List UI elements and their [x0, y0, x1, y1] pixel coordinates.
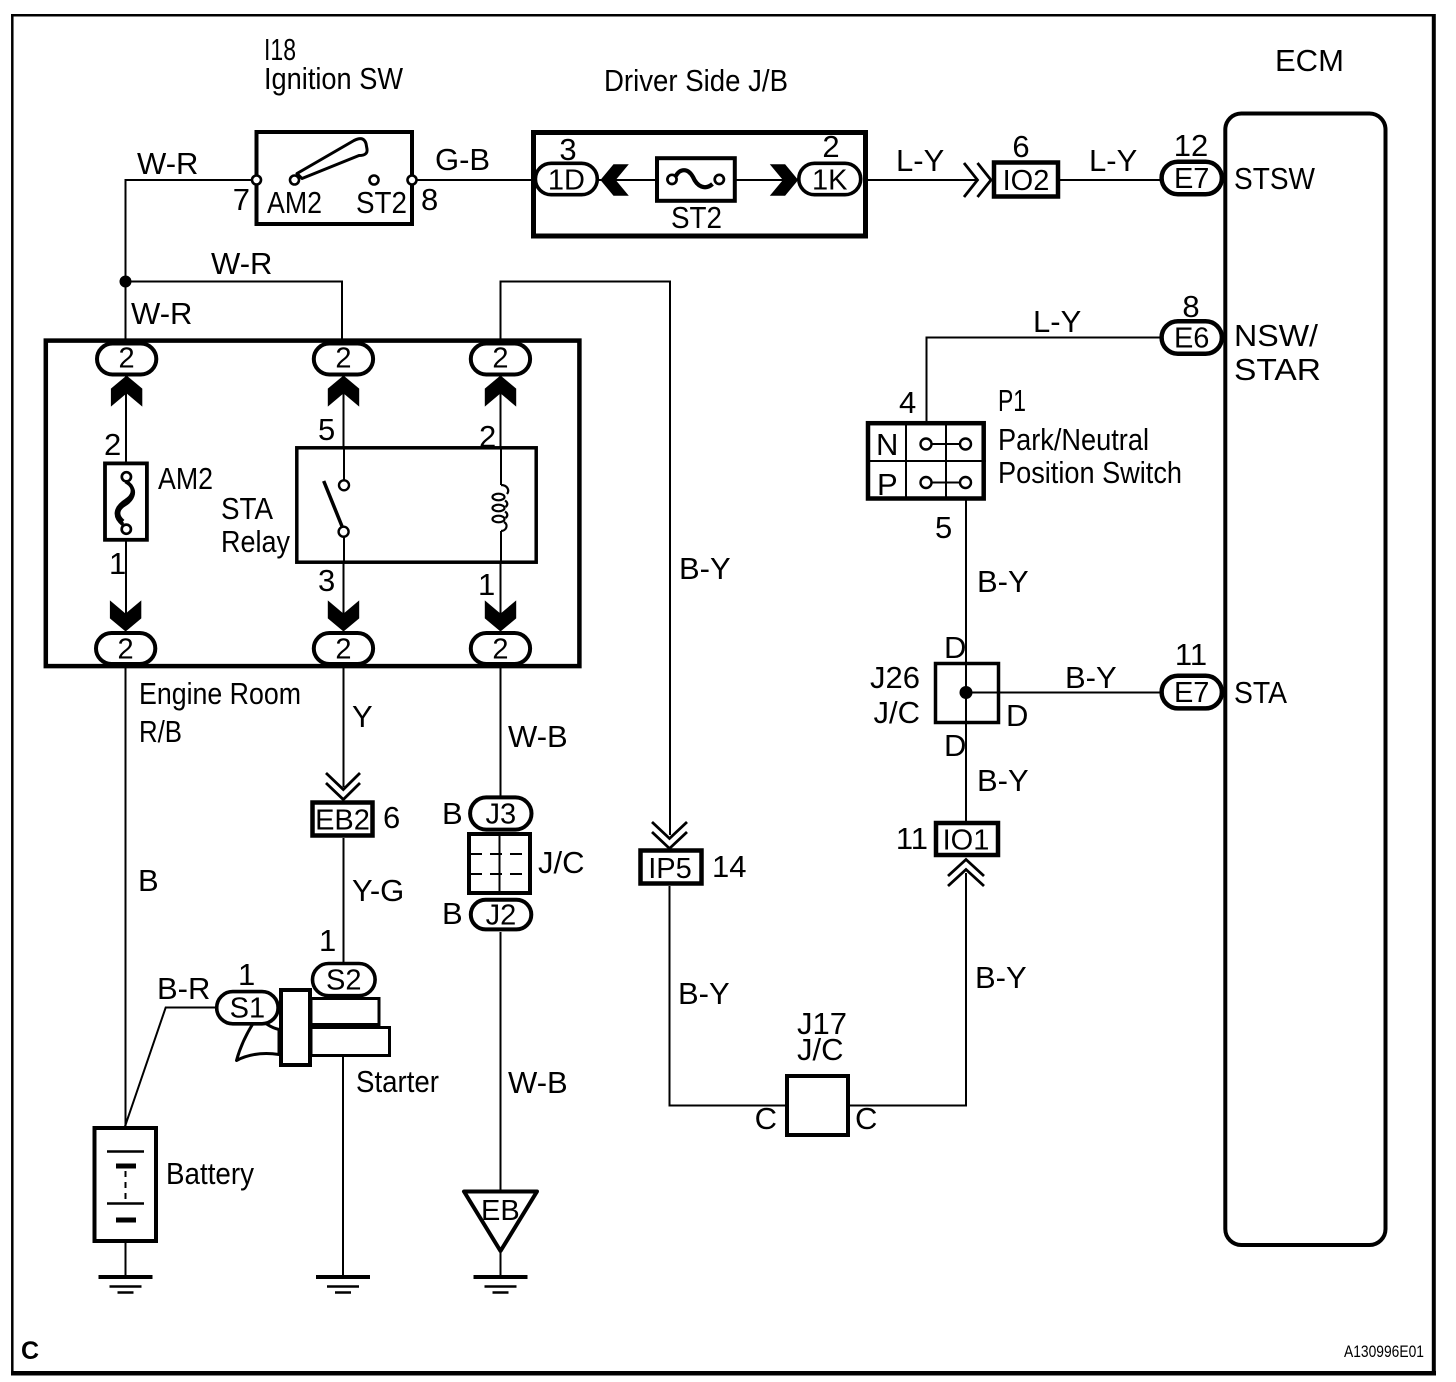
svg-text:P: P [877, 467, 898, 502]
svg-text:3: 3 [559, 132, 576, 167]
svg-text:L-Y: L-Y [1089, 143, 1137, 178]
wire from Engine Room connector to B-Y drop [501, 282, 671, 836]
svg-text:8: 8 [421, 182, 438, 217]
P1 contacts N row [930, 443, 962, 445]
wire inside J/B [566, 179, 830, 181]
ignition switch lever [297, 139, 367, 179]
connector EB2 [313, 803, 373, 836]
connector 2 (bottom 2) [314, 633, 373, 664]
svg-text:B-R: B-R [157, 971, 210, 1006]
svg-text:D: D [1006, 698, 1028, 733]
ignition ST2 contact circle [370, 176, 379, 185]
ground battery [99, 1277, 153, 1293]
svg-text:2: 2 [104, 427, 121, 462]
svg-text:Driver Side J/B: Driver Side J/B [604, 63, 788, 98]
ECM box [1225, 114, 1385, 1246]
svg-text:B-Y: B-Y [679, 551, 731, 586]
svg-text:E6: E6 [1174, 323, 1209, 355]
wire col3 inside engine room [500, 375, 502, 485]
EB ground triangle [464, 1192, 537, 1252]
svg-text:2: 2 [822, 129, 839, 164]
connector 2 (top 2) [314, 344, 373, 375]
wire L-Y from 1K to IO2 [863, 179, 978, 181]
svg-text:W-B: W-B [508, 1065, 568, 1100]
svg-text:ST2: ST2 [671, 200, 722, 235]
wire W-R branch to STA relay pin 5 [126, 282, 343, 345]
battery box [95, 1128, 157, 1241]
svg-text:B-Y: B-Y [678, 976, 730, 1011]
I18 Ignition SW title [264, 32, 404, 96]
svg-text:C: C [21, 1337, 39, 1365]
svg-text:J/C: J/C [797, 1032, 844, 1067]
svg-text:Engine Room: Engine Room [139, 676, 301, 711]
svg-text:14: 14 [712, 849, 746, 884]
svg-text:1: 1 [319, 923, 336, 958]
svg-text:1: 1 [109, 546, 126, 581]
wire W-B col3 upper [500, 665, 502, 797]
fuse AM2 element [122, 472, 131, 481]
Engine Room R/B box [46, 341, 580, 666]
arrow up below top connector 1 [111, 376, 142, 407]
svg-text:7: 7 [233, 182, 250, 217]
connector E7 (STA) [1162, 676, 1222, 709]
svg-text:Battery: Battery [166, 1156, 254, 1191]
svg-text:2: 2 [118, 634, 134, 666]
svg-text:1: 1 [238, 957, 255, 992]
svg-text:B-Y: B-Y [1065, 660, 1117, 695]
wire B battery column [125, 665, 127, 1127]
wire G-B ignition to J/B [412, 179, 533, 181]
svg-text:11: 11 [1175, 637, 1207, 672]
wire col2 inside engine room [343, 375, 345, 481]
wire Y starter column [343, 665, 345, 787]
J17 J/C labels [797, 1006, 847, 1067]
svg-text:W-R: W-R [137, 146, 198, 181]
svg-text:2: 2 [492, 343, 508, 375]
battery cell symbol [107, 1152, 144, 1221]
chevron double arrow up below IO1 [948, 860, 984, 887]
node dot J26 [960, 686, 973, 699]
label NSW/STAR [1234, 318, 1321, 387]
svg-text:Position Switch: Position Switch [998, 455, 1182, 490]
chevron double arrow down above EB2 [326, 773, 360, 800]
connector E7 (STSW) [1162, 162, 1222, 195]
svg-text:2: 2 [335, 634, 351, 666]
svg-text:Y: Y [352, 699, 373, 734]
wire W-R from ignition pin7 to junction and down to Engine Room R/B [126, 180, 259, 344]
connector J2 [471, 900, 532, 930]
wire B-Y P1 pin5 to J26 [965, 500, 967, 663]
arrow down above bottom connector 2 [328, 600, 359, 631]
svg-text:ST2: ST2 [356, 185, 407, 220]
svg-text:J/C: J/C [874, 695, 921, 730]
wire B-Y J26 to ECM E7 STA [999, 692, 1160, 694]
svg-text:2: 2 [335, 343, 351, 375]
svg-text:W-B: W-B [508, 719, 568, 754]
svg-text:J3: J3 [485, 799, 516, 831]
ignition AM2 contact circle [290, 176, 299, 185]
svg-text:IO1: IO1 [943, 825, 990, 857]
connector E6 (NSW/STAR) [1162, 321, 1222, 354]
svg-text:G-B: G-B [435, 142, 490, 177]
svg-text:J/C: J/C [538, 845, 585, 880]
ignition pin 7 circle [252, 176, 261, 185]
fuse ST2 box [657, 158, 735, 201]
svg-text:2: 2 [492, 634, 508, 666]
P1 contacts P row [930, 482, 962, 484]
svg-text:B-Y: B-Y [975, 960, 1027, 995]
svg-text:L-Y: L-Y [1033, 304, 1081, 339]
STA relay labels [221, 491, 290, 559]
svg-text:2: 2 [119, 343, 135, 375]
svg-text:E7: E7 [1174, 163, 1209, 195]
connector 2 (top 1) [97, 344, 156, 375]
svg-text:B: B [442, 796, 463, 831]
svg-text:EB2: EB2 [315, 805, 370, 837]
arrow down above bottom connector 1 [110, 600, 141, 631]
svg-text:AM2: AM2 [158, 461, 213, 496]
svg-text:Relay: Relay [221, 524, 290, 559]
svg-text:J26: J26 [870, 660, 920, 695]
connector 1D [535, 163, 597, 194]
connector 1K [799, 163, 861, 194]
svg-text:E7: E7 [1174, 677, 1209, 709]
junction block J/C middle [469, 834, 530, 893]
wire L-Y from P1 pin4 to ECM E6 [927, 338, 1161, 423]
wire col1 inside engine room [125, 375, 127, 465]
starter motor lower rect [311, 1028, 390, 1056]
label Engine Room R/B [139, 676, 301, 749]
connector J3 [470, 797, 531, 829]
svg-text:D: D [944, 728, 966, 763]
svg-text:P1: P1 [998, 383, 1026, 418]
svg-text:D: D [944, 630, 966, 665]
svg-text:J2: J2 [486, 900, 517, 932]
relay switch [343, 448, 345, 481]
ignition switch I18 box [257, 132, 413, 224]
svg-text:W-R: W-R [211, 246, 272, 281]
wire EB to ground [500, 1251, 502, 1276]
svg-text:C: C [755, 1101, 777, 1136]
relay coil [500, 448, 502, 485]
svg-text:IO2: IO2 [1003, 165, 1050, 197]
wire B-Y IP5 to J17 [670, 886, 787, 1106]
fuse AM2 box [105, 463, 147, 539]
svg-text:B-Y: B-Y [977, 763, 1029, 798]
svg-text:C: C [855, 1101, 877, 1136]
starter motor body vertical rect [281, 990, 310, 1065]
wire W-B col3 lower [500, 932, 502, 1191]
svg-text:Park/Neutral: Park/Neutral [998, 422, 1149, 457]
svg-text:6: 6 [1012, 129, 1029, 164]
connector IO1 [936, 823, 998, 855]
wire B-R horizontal and diagonal [125, 1008, 216, 1128]
svg-text:ECM: ECM [1275, 43, 1344, 78]
P1 Park/Neutral Position Switch labels [998, 383, 1182, 490]
wire starter to ground [342, 1056, 344, 1276]
Driver Side J/B box [534, 133, 866, 237]
svg-text:STAR: STAR [1234, 352, 1321, 387]
chevron double arrow down above IP5 [652, 822, 687, 849]
ground starter [316, 1277, 370, 1293]
svg-text:R/B: R/B [139, 714, 182, 749]
arrow down above bottom connector 3 [485, 600, 516, 631]
arrow up below top connector 2 [328, 376, 359, 407]
svg-text:B: B [442, 896, 463, 931]
arrow up below top connector 3 [485, 376, 516, 407]
svg-text:8: 8 [1182, 289, 1199, 324]
J26 J/C labels [870, 660, 920, 730]
svg-text:Y-G: Y-G [352, 873, 404, 908]
junction block J26 [936, 664, 999, 723]
connector S1 [217, 992, 278, 1024]
svg-text:NSW/: NSW/ [1234, 318, 1318, 353]
svg-text:STA: STA [221, 491, 273, 526]
fuse ST2 element [667, 175, 676, 184]
svg-text:Starter: Starter [356, 1064, 439, 1099]
ignition pin 8 circle [408, 176, 417, 185]
svg-text:EB: EB [481, 1195, 520, 1227]
svg-text:6: 6 [383, 800, 400, 835]
wire L-Y from IO2 to ECM E7 [1058, 179, 1160, 181]
wire B-Y J26 to IO1 [965, 723, 967, 822]
connector 2 (top 3) [471, 344, 530, 375]
junction block J17 [787, 1076, 848, 1135]
connector 2 (bottom 3) [471, 633, 530, 664]
svg-text:N: N [876, 427, 898, 462]
arrow into 1D (black, pointing left) [600, 164, 628, 195]
svg-text:W-R: W-R [131, 296, 192, 331]
svg-text:STSW: STSW [1234, 161, 1316, 196]
wire battery to ground [125, 1241, 127, 1276]
svg-text:S2: S2 [326, 965, 361, 997]
ground EB [474, 1277, 528, 1293]
connector 2 (bottom 1) [96, 633, 155, 664]
svg-text:S1: S1 [230, 993, 265, 1025]
svg-text:IP5: IP5 [648, 853, 692, 885]
node junction W-R [120, 276, 132, 288]
connector IO2 [994, 163, 1058, 197]
svg-text:1K: 1K [812, 165, 848, 197]
arrow into 1K (black, pointing right) [770, 164, 798, 195]
svg-text:1: 1 [478, 567, 495, 602]
svg-text:B: B [138, 863, 159, 898]
starter motor upper rect [311, 999, 379, 1025]
relay STA box [297, 448, 536, 562]
P1 park/neutral position switch box [868, 423, 984, 498]
svg-text:5: 5 [935, 510, 952, 545]
connector IP5 [641, 851, 702, 884]
svg-text:12: 12 [1174, 128, 1208, 163]
chevron double arrow right before IO2 [964, 163, 991, 197]
svg-text:11: 11 [896, 821, 928, 856]
svg-text:B-Y: B-Y [977, 564, 1029, 599]
svg-text:5: 5 [318, 412, 335, 447]
svg-text:Ignition SW: Ignition SW [264, 61, 404, 96]
wire B-Y IO1 to J17 [849, 873, 966, 1106]
svg-text:STA: STA [1234, 675, 1287, 710]
svg-text:AM2: AM2 [267, 185, 322, 220]
connector S2 [313, 964, 376, 996]
svg-text:4: 4 [899, 385, 916, 420]
svg-text:3: 3 [318, 563, 335, 598]
svg-text:1D: 1D [548, 165, 585, 197]
svg-text:A130996E01: A130996E01 [1344, 1342, 1424, 1361]
wire Y-G [343, 838, 345, 963]
starter hook shape [237, 1016, 280, 1061]
svg-text:L-Y: L-Y [896, 143, 944, 178]
